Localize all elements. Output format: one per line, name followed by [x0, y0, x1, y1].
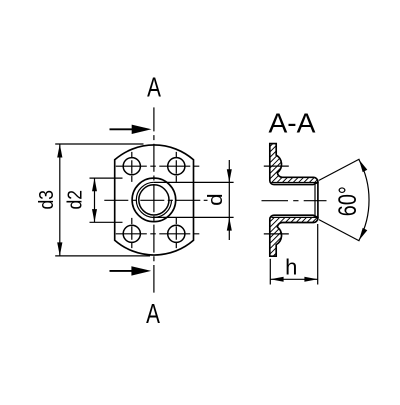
section outline top (flange plate, weld bulge, barrel wall)	[270, 144, 318, 185]
hole vertical centerline top-right	[175, 152, 177, 182]
d3 arrow top	[57, 144, 62, 158]
section arrow bottom	[110, 270, 134, 272]
section outline bottom (mirror)	[270, 215, 318, 256]
60 arc arrow top	[359, 160, 367, 173]
60 arc arrow bottom	[359, 228, 367, 241]
thread minor bold circle	[139, 185, 169, 215]
thread major thin arc (3/4 circle)	[136, 182, 171, 217]
dimension d3 extension line top	[55, 143, 143, 145]
bottom holes horizontal centerline	[116, 233, 201, 235]
barrel end face	[317, 182, 319, 218]
section arrow top	[110, 128, 134, 130]
d2 arrow top	[92, 178, 97, 191]
dimension h extension line right	[317, 224, 319, 285]
top holes horizontal centerline	[116, 165, 201, 167]
hole vertical centerline bottom-right	[175, 218, 177, 249]
bolt hole top-left	[123, 158, 140, 175]
svg-text:d: d	[205, 193, 227, 206]
flange outline	[115, 145, 194, 255]
dimension d extension line bottom	[154, 216, 234, 218]
dimension d extension line top	[154, 181, 234, 183]
section bolt hole centerline top	[264, 165, 289, 167]
bolt hole bottom-left	[123, 225, 140, 242]
svg-text:60°: 60°	[334, 186, 362, 216]
thread major thin line bottom	[272, 216, 318, 218]
d2 arrow bottom	[92, 209, 97, 222]
hole vertical centerline bottom-left	[131, 218, 133, 249]
dimension d3 line	[59, 144, 61, 256]
thread major thin line top	[272, 182, 318, 184]
bolt hole top-right	[168, 158, 185, 175]
hole vertical centerline top-left	[131, 152, 133, 182]
thread runout line at end	[314, 183, 316, 218]
d3 arrow bottom	[57, 242, 62, 256]
dimension d3 extension line bottom	[55, 255, 150, 257]
svg-text:h: h	[285, 255, 297, 280]
central boss outer circle d2	[132, 178, 176, 222]
h arrow right	[304, 277, 317, 282]
dimension h extension line left	[269, 259, 271, 285]
hatch fill bottom region	[270, 217, 318, 256]
hatch fill top region	[270, 144, 318, 183]
h arrow left	[270, 277, 283, 282]
svg-text:A: A	[147, 71, 161, 102]
bolt hole bottom-right	[168, 225, 185, 242]
d arrow bottom (outside)	[227, 218, 232, 231]
svg-text:A: A	[146, 298, 160, 329]
dimension d line	[228, 160, 230, 240]
svg-text:d2: d2	[64, 190, 86, 210]
60 deg cone line top	[319, 159, 360, 180]
dimension h line	[270, 278, 317, 280]
dimension d2 line	[94, 178, 96, 222]
vertical centerline	[153, 107, 155, 292]
dimension d2 extension line bottom	[90, 221, 123, 223]
60 deg cone line bottom	[319, 220, 360, 241]
svg-text:d3: d3	[36, 190, 58, 210]
d arrow top (outside)	[227, 169, 232, 182]
dimension d2 extension line top	[90, 177, 123, 179]
60 deg dimension arc	[359, 160, 369, 241]
svg-text:A-A: A-A	[269, 107, 316, 138]
horizontal centerline	[104, 199, 207, 201]
section main centerline	[262, 200, 327, 202]
section bolt hole centerline bottom	[264, 233, 289, 235]
